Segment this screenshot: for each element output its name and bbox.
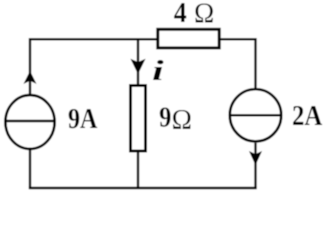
current source I2 bar bbox=[229, 114, 282, 117]
svg-text:4: 4 bbox=[174, 0, 187, 28]
svg-text:Ω: Ω bbox=[194, 0, 214, 30]
wire: left vertical bottom (I1 to bottom rail) bbox=[29, 150, 31, 189]
current arrow of source I1 (points up) bbox=[25, 72, 36, 83]
wire: middle vertical top (top rail to resistor R2) bbox=[137, 39, 139, 84]
current arrow of source I2 (points down) bbox=[250, 152, 261, 164]
svg-text:9: 9 bbox=[159, 101, 171, 133]
wire: top-right horizontal + right vertical top (R1 to source I2) bbox=[220, 39, 256, 88]
current source I2 (2A) circle bbox=[230, 89, 281, 141]
svg-text:2A: 2A bbox=[292, 99, 323, 131]
wire: top-left horizontal (node A to resistor R1 left lead) bbox=[30, 39, 157, 94]
resistor R2 (9 ohm) body bbox=[131, 86, 146, 152]
resistor R1 (4 ohm) body bbox=[158, 29, 219, 48]
svg-text:Ω: Ω bbox=[172, 104, 192, 136]
current source I1 bar bbox=[5, 120, 56, 123]
wire: right vertical bottom (I2 to bottom rail) bbox=[254, 143, 256, 188]
svg-text:9A: 9A bbox=[68, 102, 97, 134]
wire: middle vertical bottom (R2 to bottom rail) bbox=[137, 151, 139, 188]
wire: bottom rail bbox=[29, 187, 257, 190]
current source I1 (9A) circle bbox=[5, 95, 54, 149]
svg-text:i: i bbox=[152, 54, 164, 86]
current arrow i (points down) bbox=[132, 60, 145, 73]
